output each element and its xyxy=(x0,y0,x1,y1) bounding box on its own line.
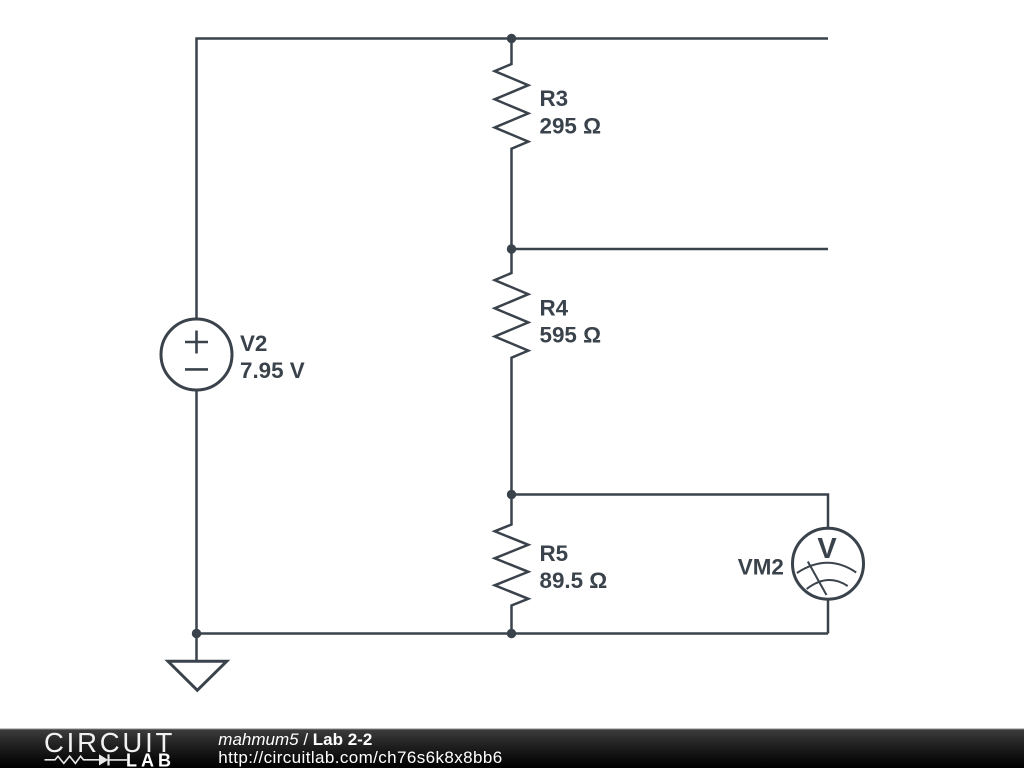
label V2 value xyxy=(240,331,305,383)
wire left rail lower xyxy=(195,390,198,634)
label R4 xyxy=(540,295,602,347)
footer bar xyxy=(0,729,1024,768)
node middle junction xyxy=(507,244,516,253)
svg-text:LAB: LAB xyxy=(126,751,175,768)
svg-text:mahmum5 / Lab 2-2: mahmum5 / Lab 2-2 xyxy=(218,730,372,749)
node junction at R5 top xyxy=(507,490,516,499)
svg-text:295 Ω: 295 Ω xyxy=(540,113,602,138)
wire middle horizontal net xyxy=(512,248,829,251)
svg-text:R4: R4 xyxy=(540,295,569,320)
svg-text:V2: V2 xyxy=(240,331,267,356)
svg-text:R5: R5 xyxy=(540,541,569,566)
svg-text:7.95 V: 7.95 V xyxy=(240,358,305,383)
svg-text:595 Ω: 595 Ω xyxy=(540,323,602,348)
svg-text:VM2: VM2 xyxy=(738,554,784,579)
svg-text:V: V xyxy=(817,533,837,565)
svg-text:http://circuitlab.com/ch76s6k8: http://circuitlab.com/ch76s6k8x8bb6 xyxy=(218,748,502,767)
resistor R5 xyxy=(495,495,529,634)
svg-text:89.5 Ω: 89.5 Ω xyxy=(540,568,608,593)
voltage source V2 xyxy=(161,319,232,390)
ground xyxy=(168,634,227,691)
wire top horizontal net xyxy=(197,39,829,320)
svg-text:R3: R3 xyxy=(540,86,569,111)
label R5 xyxy=(540,541,608,593)
node bottom junction at R5 xyxy=(507,629,516,638)
node bottom junction at ground xyxy=(192,629,201,638)
voltmeter VM2 xyxy=(793,528,864,633)
CircuitLab logo resistor-diode squiggle xyxy=(45,756,100,763)
label R3 xyxy=(540,86,602,138)
wire voltmeter loop top xyxy=(512,495,829,529)
node top junction xyxy=(507,34,516,43)
resistor R3 xyxy=(495,39,529,250)
resistor R4 xyxy=(495,249,529,495)
wire bottom horizontal net xyxy=(197,632,829,635)
